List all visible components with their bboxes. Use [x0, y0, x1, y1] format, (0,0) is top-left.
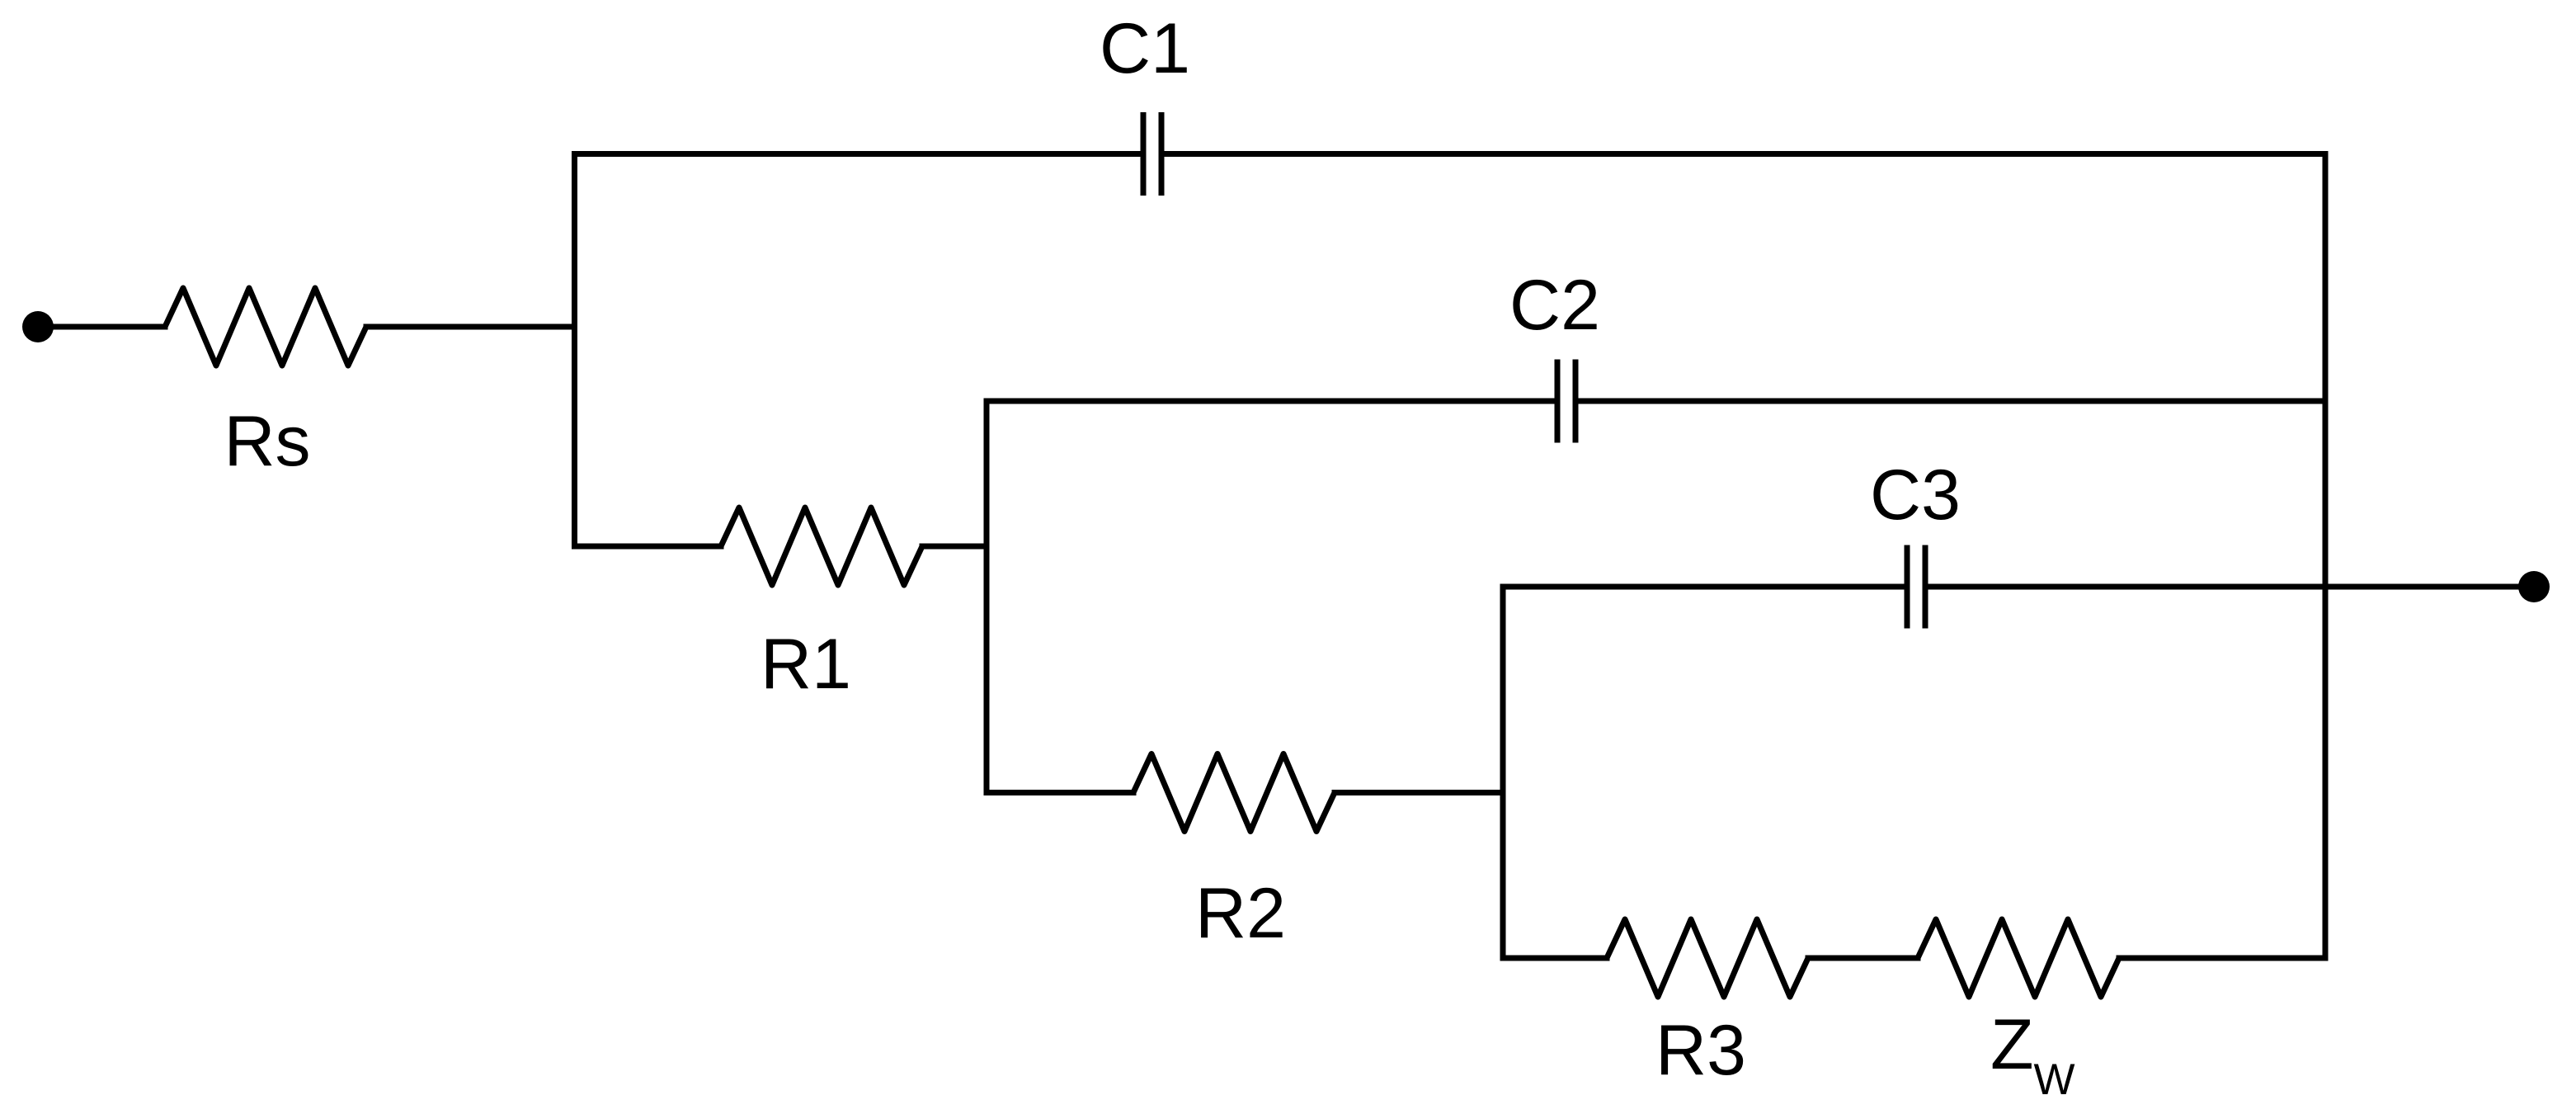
wire C3 branch left of C3 [1503, 584, 1905, 590]
resistor R1 [721, 507, 922, 585]
wire R1 to node B [922, 544, 987, 550]
svg-text:C2: C2 [1509, 266, 1600, 345]
svg-text:C1: C1 [1100, 9, 1190, 88]
terminal dot left [22, 311, 54, 342]
wire top branch right of C1 [1165, 151, 2326, 157]
resistor Rs [165, 288, 366, 366]
svg-text:R3: R3 [1655, 1011, 1746, 1090]
svg-text:Rs: Rs [224, 402, 310, 481]
wire C3 branch right of C3 to output terminal [1928, 584, 2535, 590]
wire Zw to right vertical [2119, 956, 2325, 961]
resistor R3 [1607, 919, 1808, 997]
node C vertical wire [1500, 587, 1506, 958]
wire R2 to node C [1335, 790, 1503, 795]
svg-text:R1: R1 [761, 625, 851, 704]
wire R3 to Zw [1808, 956, 1918, 961]
wire top branch left of C1 [575, 151, 1141, 157]
svg-text:ZW: ZW [1990, 1005, 2075, 1104]
wire node C to R3 [1503, 956, 1607, 961]
node A vertical wire [572, 154, 577, 547]
capacitor C3 left plate [1905, 545, 1910, 629]
capacitor C2 right plate [1573, 360, 1579, 443]
resistor R2 [1133, 754, 1335, 832]
terminal dot right [2518, 571, 2550, 602]
svg-text:R2: R2 [1195, 874, 1286, 953]
wire C2 branch left of C2 [987, 399, 1555, 404]
svg-text:C3: C3 [1870, 456, 1961, 535]
capacitor C1 right plate [1159, 112, 1165, 196]
wire left lead to Rs [38, 324, 165, 330]
capacitor C2 left plate [1555, 360, 1561, 443]
wire node B to R2 [987, 790, 1133, 795]
Warburg element Zw [1918, 919, 2119, 997]
capacitor C3 right plate [1923, 545, 1928, 629]
wire right vertical bus [2323, 154, 2329, 959]
wire C2 branch right of C2 [1579, 399, 2326, 404]
capacitor C1 left plate [1141, 112, 1147, 196]
node B vertical wire [984, 401, 990, 793]
wire Rs to node A [366, 324, 575, 330]
wire node A to R1 [575, 544, 722, 550]
